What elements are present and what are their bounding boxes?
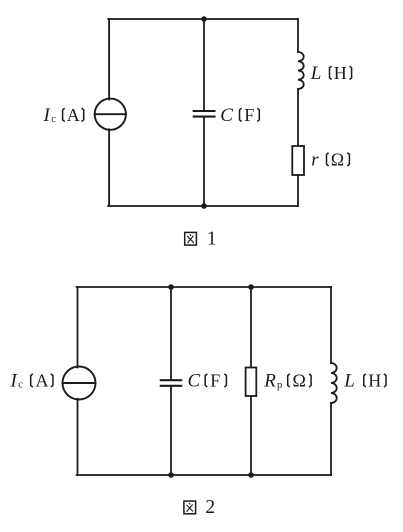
wire fig2 right lower (330, 403, 332, 475)
svg-text:p: p (277, 380, 282, 391)
svg-text:Ω: Ω (293, 370, 306, 390)
wire fig2 resistor branch lower (250, 396, 252, 475)
wire fig2 top bus (77, 286, 331, 288)
inductor L fig1 (298, 52, 304, 89)
svg-text:H: H (368, 370, 381, 390)
wire fig2 left upper (77, 287, 79, 368)
wire fig1 left upper (108, 19, 110, 100)
wire fig1 right upper (297, 19, 299, 52)
wire fig2 capacitor branch upper (170, 287, 172, 380)
capacitor C fig2 (161, 380, 181, 386)
wire fig2 left lower (77, 399, 79, 475)
wire fig1 middle lower (203, 117, 205, 206)
label L [H] fig1 (310, 63, 352, 84)
node fig2 bottom junction C (168, 472, 174, 478)
label Ic [A] fig1 (43, 105, 84, 126)
node fig2 top junction C (168, 284, 174, 290)
inductor L fig2 (331, 363, 337, 403)
wire fig1 bottom bus (108, 205, 298, 207)
svg-text:L: L (310, 63, 322, 84)
node fig2 top junction Rp (248, 284, 254, 290)
wire fig2 capacitor branch lower (170, 386, 172, 475)
wire fig1 top bus (108, 18, 298, 20)
label L [H] fig2 (343, 370, 386, 391)
label Rp [ohm] fig2 (263, 370, 311, 391)
svg-text:C: C (220, 105, 233, 126)
svg-text:A: A (67, 105, 80, 125)
wire fig2 resistor branch upper (250, 287, 252, 368)
svg-text:F: F (210, 370, 220, 390)
label C [F] fig1 (220, 105, 259, 126)
node fig1 top junction (201, 16, 207, 22)
label r [ohm] fig1 (311, 149, 349, 170)
svg-text:c: c (51, 114, 56, 125)
svg-text:2: 2 (205, 497, 215, 518)
resistor r fig1 (292, 146, 304, 175)
svg-text:r: r (311, 149, 319, 170)
current source Ic fig2 (63, 367, 96, 400)
svg-text:H: H (334, 63, 347, 83)
svg-text:F: F (244, 105, 254, 125)
label C [F] fig2 (188, 370, 227, 391)
wire fig1 left lower (108, 129, 110, 206)
wire fig1 right lower (297, 175, 299, 206)
svg-text:A: A (36, 370, 49, 390)
node fig2 bottom junction Rp (248, 472, 254, 478)
resistor Rp fig2 (246, 368, 257, 397)
label Ic [A] fig2 (10, 370, 53, 391)
capacitor C fig1 (194, 111, 215, 117)
svg-text:R: R (263, 370, 276, 391)
svg-text:1: 1 (207, 229, 217, 250)
current source Ic fig1 (95, 99, 126, 130)
svg-text:Ω: Ω (331, 149, 344, 169)
wire fig1 right middle (297, 89, 299, 146)
wire fig2 bottom bus (77, 474, 331, 476)
caption figure 2 (184, 497, 215, 518)
node fig1 bottom junction (201, 203, 207, 209)
wire fig2 right upper (330, 287, 332, 363)
svg-text:L: L (343, 370, 355, 391)
svg-text:c: c (18, 380, 23, 391)
caption figure 1 (185, 229, 217, 250)
wire fig1 middle upper (203, 19, 205, 110)
svg-text:C: C (188, 370, 201, 391)
